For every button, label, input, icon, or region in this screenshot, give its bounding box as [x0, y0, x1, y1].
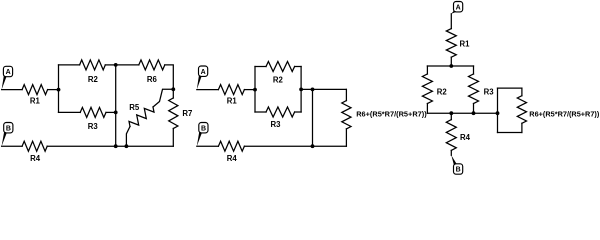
svg-text:B: B — [6, 125, 11, 132]
resistor R3 (circuit 2) — [266, 107, 295, 117]
wire R7 to bottom rail — [172, 129, 174, 147]
resistor R5 — [153, 89, 173, 107]
svg-text:R4: R4 — [460, 133, 471, 142]
node A (circuit 3) — [454, 2, 463, 12]
node A (circuit 1) — [3, 66, 12, 76]
wire top branch left — [255, 66, 266, 68]
node 2 rail — [115, 65, 117, 146]
resistor R4 (circuit 2) — [218, 141, 244, 151]
wire R1 to node 1 — [48, 89, 59, 91]
wire A to R1 — [450, 14, 452, 29]
wire bottom branch right — [106, 111, 116, 113]
wire bottom branch right — [295, 111, 302, 113]
wire A to R1 — [2, 89, 23, 91]
resistor R3 (circuit 3) — [473, 66, 475, 74]
svg-text:R4: R4 — [30, 154, 41, 163]
resistor R4 (circuit 3) — [450, 113, 452, 119]
node 2 junction (circuit 2) — [299, 88, 303, 92]
resistor R7 — [172, 89, 174, 98]
wire node 2 to equivalent resistor — [301, 88, 346, 90]
svg-text:R7: R7 — [182, 109, 192, 118]
wire node2 to R6 — [116, 64, 139, 66]
svg-text:R1: R1 — [227, 96, 238, 105]
wire R1 to node 1 — [244, 89, 255, 91]
wire top branch left — [59, 64, 80, 66]
node 1 junction — [57, 88, 61, 92]
wire B to R4 — [2, 145, 23, 147]
resistor R1 (circuit 3) — [446, 29, 456, 58]
node 2 junction (circuit 3) — [449, 111, 453, 115]
svg-text:R5: R5 — [129, 103, 140, 112]
wire top bracket — [427, 65, 473, 67]
wire bottom bracket — [427, 112, 497, 114]
node 1 junction (circuit 3) — [449, 64, 453, 68]
svg-text:R3: R3 — [484, 88, 495, 97]
resistor R4 — [22, 141, 47, 151]
svg-text:R6+(R5*R7/(R5+R7)): R6+(R5*R7/(R5+R7)) — [356, 110, 427, 119]
equivalent resistor R6+(R5*R7/(R5+R7)) (circuit 2) — [345, 89, 347, 100]
wire bottom branch left — [255, 111, 266, 113]
resistor R2 (circuit 2) — [266, 62, 295, 72]
junction equivalent branch tap — [496, 111, 500, 115]
svg-text:R6+(R5*R7/(R5+R7)): R6+(R5*R7/(R5+R7)) — [529, 110, 599, 119]
svg-text:B: B — [456, 167, 461, 174]
wire equivalent branch top — [498, 87, 522, 89]
junction bottom rail / node 2 — [125, 144, 129, 148]
wire tap vertical to bottom rail — [312, 89, 314, 146]
bottom wire R4 to R7 — [47, 145, 173, 147]
resistor R3 — [80, 107, 106, 117]
svg-text:R2: R2 — [88, 75, 99, 84]
wire top branch right — [105, 64, 115, 66]
svg-text:R4: R4 — [227, 154, 238, 163]
resistor R2 — [80, 60, 106, 70]
wire equivalent branch bottom — [498, 132, 522, 134]
wire equivalent branch left vertical — [497, 88, 499, 132]
node A (circuit 2) — [199, 66, 208, 76]
wire bottom branch left — [59, 111, 81, 113]
wire A to R1 — [197, 89, 219, 91]
node 1 junction (circuit 2) — [253, 88, 257, 92]
wire left bracket vertical (circuit 2) — [254, 67, 256, 113]
svg-text:R1: R1 — [460, 40, 471, 49]
node B (circuit 3) — [454, 164, 463, 174]
svg-text:A: A — [6, 69, 11, 76]
junction R3 bottom — [472, 111, 476, 115]
resistor R1 — [22, 85, 47, 95]
svg-text:B: B — [201, 125, 206, 132]
wire left bracket vertical — [58, 65, 60, 113]
node 3 junction — [171, 87, 175, 91]
svg-text:A: A — [201, 69, 206, 76]
svg-text:A: A — [456, 4, 461, 11]
resistor R2 (circuit 3) — [426, 66, 428, 74]
wire R1 to node 1 — [450, 57, 452, 66]
svg-text:R3: R3 — [88, 122, 99, 131]
wire B to R4 — [197, 145, 219, 147]
svg-text:R3: R3 — [271, 120, 282, 129]
svg-text:R1: R1 — [30, 96, 41, 105]
node B (circuit 1) — [4, 123, 13, 133]
resistor R1 (circuit 2) — [218, 85, 244, 95]
wire top branch right — [295, 66, 302, 68]
junction tap to bottom rail — [311, 88, 315, 92]
node B (circuit 2) — [199, 123, 208, 133]
wire right bracket vertical (circuit 2) — [300, 67, 302, 113]
svg-text:R6: R6 — [147, 75, 158, 84]
svg-text:R2: R2 — [273, 76, 284, 85]
svg-text:R2: R2 — [437, 88, 448, 97]
bottom wire to equivalent resistor — [244, 145, 346, 147]
wire R6 to node 3 — [165, 65, 174, 89]
equivalent resistor R6+(R5*R7/(R5+R7)) (circuit 3) — [521, 88, 523, 96]
resistor R6 — [139, 60, 165, 70]
